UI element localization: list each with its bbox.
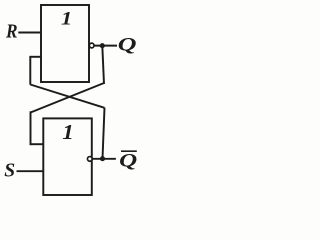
wire left lower vertical — [30, 111, 32, 145]
overline of Qbar — [121, 150, 137, 152]
wire S input — [17, 170, 44, 172]
gate U2 (bottom, IEC box) — [43, 118, 92, 195]
gate U1 (top, IEC box) — [41, 5, 89, 82]
svg-text:Q: Q — [118, 33, 137, 54]
wire right lower vertical — [103, 108, 105, 159]
inversion bubble U1 output — [89, 43, 94, 48]
svg-text:1: 1 — [62, 120, 74, 143]
svg-text:1: 1 — [61, 7, 72, 29]
junction node Q — [100, 43, 105, 48]
wire diagonal D2 (right to bottom-left) — [31, 83, 105, 113]
junction node Qbar — [100, 156, 105, 161]
wire U1 second input stub — [30, 56, 41, 58]
svg-text:R: R — [5, 20, 17, 41]
inversion bubble U2 output — [87, 157, 92, 162]
wire top output to Q — [94, 45, 117, 47]
wire R input — [18, 32, 41, 34]
svg-text:Q: Q — [119, 149, 137, 170]
wire right upper vertical — [102, 46, 104, 84]
wire U2 feedback input — [30, 143, 44, 145]
svg-text:S: S — [4, 159, 15, 181]
wire bottom output to Qbar — [92, 158, 116, 160]
wire diagonal D1 (left to bottom-right) — [30, 85, 104, 108]
wire left upper vertical — [29, 56, 31, 85]
